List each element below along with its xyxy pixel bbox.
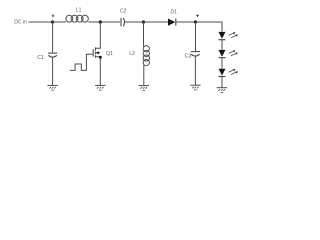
inductor L1 [66,15,73,22]
LED D4 [219,69,226,76]
label D1 [171,10,178,16]
capacitor C2 [120,18,122,26]
svg-text:D1: D1 [171,10,178,16]
transistor Q1 body arrow [96,52,101,54]
ground (L2 branch) [139,85,149,87]
wire LED D2 to LED D3 [221,40,223,50]
label C2 [120,9,127,15]
ground (C3 branch) [190,84,200,86]
wire input to node A [29,21,53,23]
diode D1 [168,19,175,26]
label Q1 [106,51,113,57]
svg-text:L1: L1 [76,8,82,14]
label L2 [129,51,135,57]
LED D2 light arrows [229,33,237,38]
node C junction dot (L2 tap) [142,20,145,23]
label C3 [185,54,192,60]
node DC in label [14,20,27,26]
wire L1 to C2 [88,21,120,23]
label C1 [37,55,44,61]
capacitor C1 [48,52,57,54]
svg-text:DC in: DC in [14,20,27,26]
LED D4 light arrows [229,70,237,75]
wire D1 to node D [176,21,195,23]
capacitor C3 [191,51,200,53]
ground (Q1 source) [95,84,105,86]
LED D3 light arrows [229,51,237,56]
wire LED D4 to ground [221,77,223,88]
node D junction dot [194,20,197,23]
inductor L2 [143,46,149,52]
svg-text:Q1: Q1 [106,51,113,57]
wire C1 branch down [52,22,54,53]
transistor Q1 gate bar [92,49,94,56]
ground (C1 branch) [47,84,57,86]
transistor Q1 channel bar [95,47,97,57]
pulse drive symbol [70,54,93,70]
wire L2 branch down [143,22,146,47]
wire node D to LED branch corner [196,22,223,32]
transistor Q1 source dot [99,56,102,59]
node D plus mark [196,14,199,17]
wire node A to L1 [53,21,66,23]
svg-text:C1: C1 [37,55,44,61]
transistor Q1 source lead [96,57,101,85]
svg-text:C3: C3 [185,54,192,60]
LED D2 [219,32,226,39]
ground (LED branch) [217,87,227,89]
wire node C to D1 [144,21,169,23]
label L1 [76,8,82,14]
node A plus mark [52,14,55,17]
LED D3 [219,50,226,57]
wire C3 branch down [195,22,197,51]
node B junction dot (Q1 drain tap) [99,20,102,23]
svg-text:L2: L2 [129,51,135,57]
wire LED D3 to LED D4 [221,58,223,69]
transistor Q1 drain lead [96,22,101,48]
svg-text:C2: C2 [120,9,127,15]
node A junction dot [51,20,54,23]
